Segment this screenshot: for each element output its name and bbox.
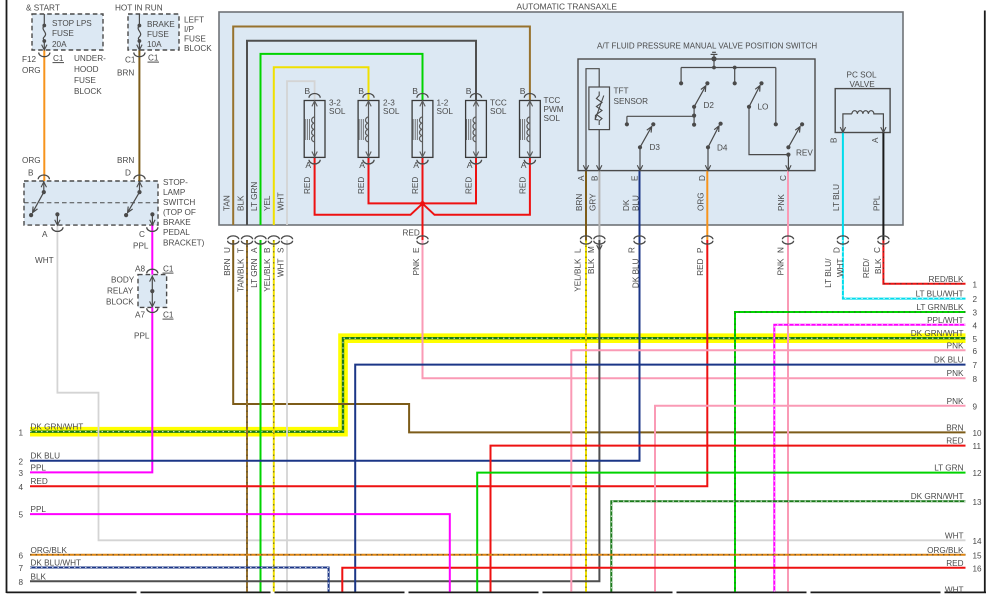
svg-text:WHT: WHT [276,192,285,211]
svg-text:WHT: WHT [836,259,845,278]
svg-text:PPL: PPL [133,242,149,251]
connector arcs at stop-lamp switch B and D [38,175,49,179]
svg-text:TAN/BLK: TAN/BLK [236,258,245,292]
2-3 SOL solenoid [358,101,379,158]
wire WHT (S) down to page bottom [286,240,288,592]
svg-text:TCC: TCC [544,96,561,105]
svg-text:BRAKE: BRAKE [147,20,175,29]
wire PPL body relay A7 to left line 3 [30,307,152,472]
svg-text:BLK: BLK [587,258,596,274]
svg-text:F12: F12 [22,55,37,64]
svg-text:AUTOMATIC TRANSAXLE: AUTOMATIC TRANSAXLE [517,2,618,12]
svg-text:3: 3 [973,309,978,318]
svg-text:PNK: PNK [947,369,964,378]
wire DK GRN/WHT right line 13 [611,501,965,591]
body relay block box [138,275,167,308]
page border bottom [7,591,987,593]
wire BRN TFT sensor A [585,171,587,240]
svg-text:15: 15 [973,551,983,560]
svg-text:1: 1 [18,428,23,437]
svg-text:LEFT: LEFT [184,16,204,25]
wire ORG switch D [706,171,708,240]
svg-text:B: B [304,86,310,96]
page border right [984,11,986,594]
svg-text:U: U [223,247,232,253]
wire PNK switch C [787,171,789,240]
svg-text:PC SOL: PC SOL [847,71,877,80]
svg-text:FUSE: FUSE [147,30,169,39]
svg-text:FUSE: FUSE [74,76,96,85]
switch D3 [651,122,655,126]
svg-text:ORG/BLK: ORG/BLK [31,546,68,555]
svg-text:A8: A8 [135,265,145,274]
switch D4 [719,122,723,126]
wire RED/BLK (C) to right line 1 [883,240,965,284]
svg-text:A: A [42,230,48,239]
automatic transaxle component box [219,12,903,225]
stop-lamp switch pole D [139,181,141,192]
svg-text:PWM: PWM [544,105,564,114]
svg-text:5: 5 [973,335,978,344]
svg-text:BRN: BRN [946,423,963,432]
wire TAN to TCC PWM SOL B [233,27,530,226]
underhood fuse block (STOP LPS FUSE) [32,14,103,50]
body relay block pass-through [147,269,158,273]
svg-text:BRN: BRN [575,194,584,211]
svg-text:2: 2 [973,295,978,304]
wire DK BLU (R) to left line 2 [30,240,640,461]
svg-text:BLU: BLU [631,195,640,211]
1-2 SOL solenoid [412,101,433,158]
svg-text:A: A [305,160,311,170]
svg-text:4: 4 [18,483,23,492]
svg-text:A: A [250,247,259,253]
svg-text:8: 8 [18,578,23,587]
fuse BRAKE FUSE 10A [138,14,140,26]
svg-text:DK GRN/WHT: DK GRN/WHT [911,492,964,501]
svg-text:13: 13 [973,498,983,507]
left I/P fuse block (BRAKE FUSE) [128,14,179,50]
svg-text:YEL/BLK: YEL/BLK [263,258,272,292]
svg-text:6: 6 [18,551,23,560]
TCC SOL solenoid [466,101,487,158]
svg-text:RED/: RED/ [862,258,871,278]
svg-text:BODY: BODY [111,276,135,285]
svg-text:4: 4 [973,321,978,330]
wire RED (P) to left line 4 [30,240,707,486]
svg-text:LT BLU/WHT: LT BLU/WHT [916,290,964,299]
svg-text:BLK: BLK [31,572,47,581]
connector arcs below stop-lamp switch A and C [52,227,63,231]
svg-text:SENSOR: SENSOR [614,97,649,106]
svg-text:7: 7 [973,361,978,370]
rail drop right contact [775,68,777,125]
svg-text:A/T FLUID PRESSURE MANUAL VALV: A/T FLUID PRESSURE MANUAL VALVE POSITION… [597,42,817,51]
junction dot at switch top [711,56,716,61]
svg-text:HOOD: HOOD [74,65,99,74]
svg-text:LAMP: LAMP [163,188,186,197]
svg-text:B: B [412,86,418,96]
svg-text:DK GRN/WHT: DK GRN/WHT [911,329,964,338]
svg-text:SOL: SOL [329,107,346,116]
wire YEL/BLK (B) down to page bottom [273,240,275,592]
svg-text:C: C [779,175,788,181]
svg-text:D2: D2 [704,101,715,110]
svg-text:RED/BLK: RED/BLK [928,275,964,284]
switch common rail [713,59,715,68]
svg-text:BLK: BLK [874,258,883,274]
svg-text:PPL: PPL [134,332,150,341]
svg-text:RED: RED [696,258,705,275]
svg-text:HOT IN RUN: HOT IN RUN [115,4,163,13]
svg-text:BRN: BRN [223,258,232,275]
svg-text:BRAKE: BRAKE [163,218,191,227]
svg-text:10A: 10A [147,40,162,49]
svg-text:RED: RED [31,477,48,486]
wire PNK (E) to right line 8 [423,240,966,378]
svg-text:PNK: PNK [947,397,964,406]
svg-text:RED: RED [411,177,420,194]
svg-text:PPL/WHT: PPL/WHT [927,316,963,325]
svg-text:A: A [577,175,586,181]
svg-text:PNK: PNK [947,341,964,350]
TFT sensor box and thermistor [586,69,599,171]
svg-text:SOL: SOL [437,107,454,116]
svg-text:GRY: GRY [589,193,598,211]
PC SOL VALVE box [835,89,890,133]
svg-text:I/P: I/P [184,25,195,34]
svg-text:DK BLU: DK BLU [632,258,641,288]
svg-text:LT GRN: LT GRN [250,258,259,287]
svg-text:TFT: TFT [614,87,629,96]
wire PNK right line 6 [571,350,965,591]
wire DK BLU/WHT left line 7 [30,568,329,592]
svg-text:WHT: WHT [276,259,285,278]
svg-text:PNK: PNK [412,258,421,275]
svg-text:SOL: SOL [490,107,507,116]
rail drop middle contact [734,68,736,84]
svg-text:9: 9 [973,402,978,411]
svg-text:12: 12 [973,469,983,478]
svg-text:B: B [358,86,364,96]
stop-lamp switch box [24,181,158,225]
junction dot RED bus [420,201,425,206]
svg-text:8: 8 [973,375,978,384]
svg-text:11: 11 [973,442,982,451]
svg-text:ORG: ORG [22,66,41,75]
wire LT BLU PC sol valve B [842,133,844,241]
svg-text:A: A [359,160,365,170]
svg-text:20A: 20A [52,40,67,49]
svg-text:C1: C1 [163,265,174,274]
svg-text:C1: C1 [163,311,174,320]
svg-text:B: B [263,247,272,253]
wire DK GRN/WHT highlighted (left 1 to right 5) [30,338,966,432]
svg-text:RED: RED [946,437,963,446]
connector arcs and pins of 2-3 SOL solenoid [363,93,374,97]
wire PPL stop-lamp switch C to body relay A8 [151,225,153,275]
svg-text:DK: DK [622,199,631,211]
svg-text:FUSE: FUSE [52,29,74,38]
svg-text:A: A [521,160,527,170]
svg-text:C: C [139,230,145,239]
svg-text:6: 6 [973,347,978,356]
wire PPL/WHT right line 4 [774,325,965,592]
svg-text:P: P [696,247,705,253]
svg-text:REV: REV [796,149,813,158]
wire YEL to 2-3 SOL B [274,67,369,225]
svg-text:PPL: PPL [31,505,47,514]
svg-text:3: 3 [18,469,23,478]
svg-text:B: B [520,86,526,96]
svg-text:14: 14 [973,537,983,546]
svg-text:BLOCK: BLOCK [184,44,212,53]
svg-text:C: C [873,247,882,253]
switch LO [759,81,763,85]
svg-text:WHT: WHT [945,531,964,540]
svg-text:DK BLU: DK BLU [31,452,61,461]
wire PPL PC sol valve A [882,133,884,241]
wire LT GRN right line 12 [477,473,965,592]
svg-text:LT GRN: LT GRN [934,464,963,473]
svg-text:FUSE: FUSE [184,35,206,44]
svg-text:C1: C1 [148,54,159,63]
svg-text:DK BLU: DK BLU [934,356,964,365]
svg-text:ORG: ORG [22,156,41,165]
svg-text:M: M [587,246,596,253]
wire DK BLU right line 7 [355,365,965,592]
stop-lamp switch internal divider [24,202,158,204]
svg-text:DK GRN/WHT: DK GRN/WHT [31,423,84,432]
page border left [6,0,8,593]
wire LT GRN/BLK right line 3 [735,312,966,592]
wire LT GRN to 1-2 SOL B [261,54,423,225]
wire RED solenoid A common bus [315,157,530,240]
svg-text:B: B [590,175,599,181]
svg-text:& START: & START [26,4,60,13]
svg-text:LO: LO [758,103,769,112]
svg-text:TAN: TAN [223,195,232,211]
svg-text:A: A [413,160,419,170]
TCC PWM SOL solenoid [520,101,541,158]
wire RED right line 11 [491,446,966,592]
svg-text:B: B [830,137,839,143]
3-2 SOL solenoid [304,101,325,158]
wire ORG/BLK line 6-left to 15-right [30,554,966,556]
svg-text:WHT: WHT [945,586,964,594]
svg-text:T: T [236,248,245,253]
A/T fluid pressure manual valve position switch box [578,59,815,171]
svg-text:ORG/BLK: ORG/BLK [927,546,964,555]
PC SOL valve coil [843,114,852,133]
stop-lamp switch contact C [150,212,154,216]
connector arcs and pins of TCC PWM SOL solenoid [524,93,535,97]
connector arcs and pins of TCC SOL solenoid [470,93,481,97]
svg-text:PNK: PNK [777,258,786,275]
svg-text:LT BLU: LT BLU [832,184,841,211]
svg-text:YEL: YEL [263,195,272,211]
svg-text:D4: D4 [717,144,728,153]
svg-text:ORG: ORG [696,192,705,211]
fuse STOP LPS FUSE 20A [43,14,45,26]
svg-text:RED: RED [303,177,312,194]
wire BRN from brake fuse to stop-lamp switch D [138,50,140,181]
svg-text:A: A [871,137,880,143]
wire TAN/BLK (T) down to page bottom [246,240,248,592]
svg-text:7: 7 [18,564,23,573]
svg-text:BLOCK: BLOCK [74,87,102,96]
svg-text:STOP LPS: STOP LPS [52,19,92,28]
wire RED right line 16 [342,568,965,592]
svg-text:PNK: PNK [777,194,786,211]
svg-text:D: D [832,247,841,253]
connector arcs and pins of 1-2 SOL solenoid [417,93,428,97]
svg-text:PEDAL: PEDAL [163,228,190,237]
svg-text:RED: RED [946,559,963,568]
svg-text:(TOP OF: (TOP OF [163,208,196,217]
svg-text:B: B [28,169,34,178]
svg-text:C1: C1 [125,56,136,65]
svg-text:RED: RED [357,177,366,194]
svg-text:YEL/BLK: YEL/BLK [574,258,583,292]
svg-text:SWITCH: SWITCH [163,198,195,207]
svg-text:B: B [466,86,472,96]
wire DK BLU switch E [639,171,641,240]
svg-text:BLK: BLK [236,195,245,211]
connector arcs and pins of 3-2 SOL solenoid [309,93,320,97]
svg-text:D: D [125,169,131,178]
wire WHT to 3-2 SOL B [287,81,315,225]
svg-text:BRN: BRN [117,156,134,165]
svg-text:R: R [628,247,637,253]
wire PNK right line 9 [655,406,966,592]
wire GRY TFT sensor B [598,171,600,240]
wire YEL/BLK (L) down to page bottom [585,240,587,592]
svg-text:PPL: PPL [31,463,47,472]
svg-text:2: 2 [18,457,23,466]
svg-text:WHT: WHT [35,256,54,265]
svg-text:C1: C1 [53,54,64,63]
wire ORG from stop lps fuse to stop-lamp switch B [43,50,45,181]
svg-text:D3: D3 [650,143,661,152]
wire LT GRN (A) down to page bottom [260,240,262,592]
wire BRN (U) to right line 10 [233,240,965,432]
svg-text:RED: RED [518,177,527,194]
svg-text:VALVE: VALVE [850,80,876,89]
switch D2 [705,81,709,85]
svg-text:L: L [574,248,583,253]
wire LT BLU/WHT (D) to right line 2 [843,240,966,299]
svg-text:E: E [630,175,639,181]
svg-text:5: 5 [18,511,23,520]
svg-text:E: E [412,247,421,253]
svg-text:LT GRN: LT GRN [250,182,259,211]
wire PNK (N) down to page bottom [787,240,789,592]
svg-text:D: D [698,175,707,181]
svg-text:A7: A7 [135,311,145,320]
svg-text:UNDER-: UNDER- [74,54,106,63]
svg-text:RED: RED [464,177,473,194]
svg-text:16: 16 [973,564,983,573]
rail drop left contact [680,68,682,84]
switch REV [786,153,790,157]
svg-text:SOL: SOL [544,114,561,123]
svg-text:S: S [276,247,285,253]
svg-text:LT GRN/BLK: LT GRN/BLK [916,303,964,312]
wire WHT from stop-lamp switch A to right line 14 [57,225,965,540]
svg-text:BRN: BRN [117,69,134,78]
switch inner rail to D3 [627,115,694,117]
svg-text:RED: RED [403,229,420,238]
svg-text:LT BLU/: LT BLU/ [824,258,833,288]
wire PPL left line 5 [30,514,450,592]
stop-lamp switch contact A [55,212,59,216]
wire BLK (M) to left line 8 [30,240,599,581]
case ground symbol at switch top [713,55,715,59]
arrows TFT wires crossing switch box bottom [583,165,588,170]
extra arrow below BLK M connector [597,245,602,250]
svg-text:STOP-: STOP- [163,178,188,187]
svg-text:A: A [467,160,473,170]
inline connectors at transaxle harness [228,236,239,244]
svg-text:10: 10 [973,429,983,438]
svg-text:PPL: PPL [873,195,882,211]
svg-text:BLOCK: BLOCK [106,298,134,307]
svg-text:1: 1 [973,280,978,289]
svg-text:SOL: SOL [383,107,400,116]
svg-text:RELAY: RELAY [107,287,134,296]
svg-text:BRACKET): BRACKET) [163,239,205,248]
svg-text:DK BLU/WHT: DK BLU/WHT [31,559,82,568]
stop-lamp switch pole B [43,181,45,192]
wire BLK to TCC SOL B [247,41,476,225]
svg-text:N: N [777,247,786,253]
